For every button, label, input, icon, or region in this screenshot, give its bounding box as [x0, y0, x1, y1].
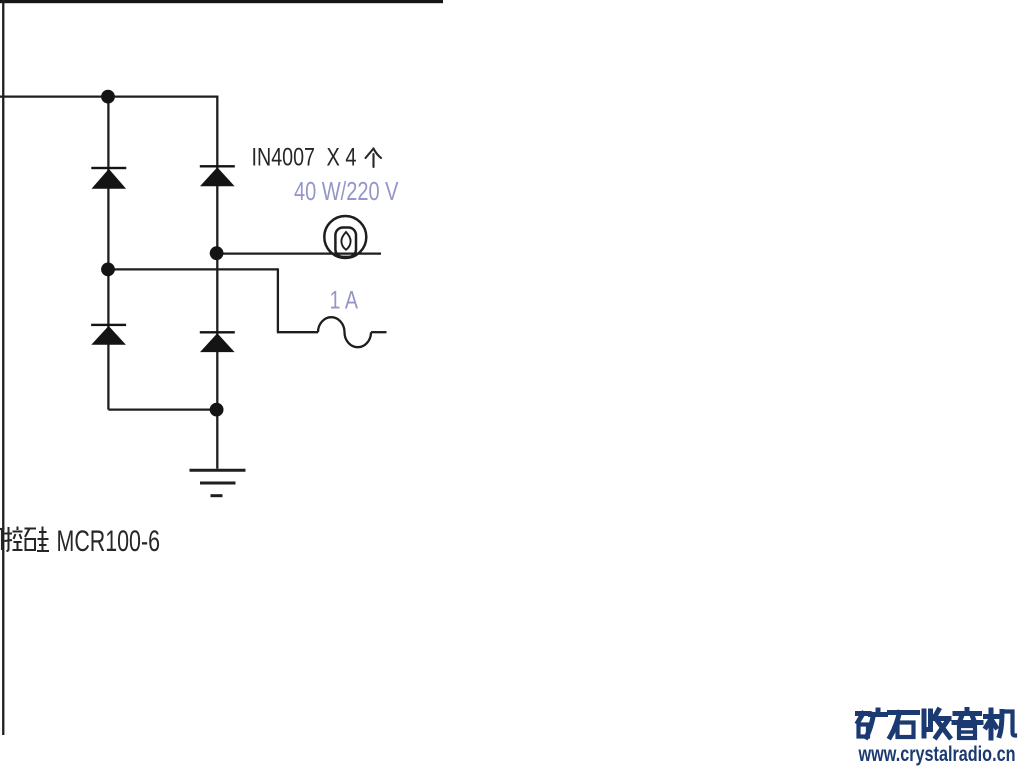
logo char ji: [986, 714, 998, 719]
diode D4 bottom-right: [200, 331, 235, 352]
svg-text:IN4007: IN4007: [252, 144, 316, 172]
wire left frame line: [2, 0, 4, 735]
wire AC input horizontal: [0, 95, 218, 97]
label Chinese char kong: [5, 527, 23, 552]
wire fuse right lead: [371, 331, 387, 333]
wire bottom horizontal: [108, 408, 216, 410]
node junction dot top: [101, 90, 115, 104]
wire top frame line: [0, 0, 443, 3]
node junction dot left mid: [101, 263, 115, 277]
svg-text:X 4: X 4: [327, 144, 357, 172]
diode D3 bottom-left: [91, 324, 126, 345]
logo char kuang: [858, 711, 870, 716]
fuse F1 squiggle: [318, 317, 371, 347]
svg-text:MCR100-6: MCR100-6: [57, 525, 161, 558]
logo char shou: [922, 711, 927, 736]
label partial Chinese char ke: [0, 529, 5, 550]
svg-text:40 W/220 V: 40 W/220 V: [294, 176, 399, 206]
wire right branch vertical: [216, 96, 218, 469]
logo char shi: [890, 710, 918, 715]
logo Chinese kuang shi shou yin ji: [858, 710, 1016, 739]
wire left branch vertical: [107, 97, 109, 410]
lamp EL1: [324, 216, 366, 258]
svg-text:1 A: 1 A: [330, 287, 359, 315]
wire vertical to fuse: [277, 268, 279, 332]
diode D1 top-left: [91, 167, 126, 189]
wire mid horizontal: [108, 268, 278, 270]
wire fuse left lead: [277, 331, 318, 333]
logo char yin: [965, 710, 970, 713]
ground: [190, 470, 246, 496]
diode D2 top-right: [200, 165, 235, 186]
node junction dot right mid: [210, 246, 224, 260]
label Chinese char ge (unit): [366, 149, 382, 168]
node junction dot bottom: [210, 403, 224, 417]
label Chinese char gui: [25, 527, 50, 552]
svg-text:www.crystalradio.cn: www.crystalradio.cn: [858, 742, 1016, 766]
wire lamp output horizontal: [217, 252, 381, 254]
